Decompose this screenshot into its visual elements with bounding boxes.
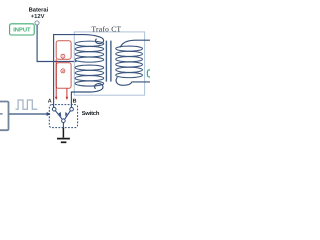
oscillator inner mark [0,113,3,115]
red highlight box pin 1 [56,41,71,60]
wire battery to transformer center tap [37,25,76,61]
arrowhead into switch [47,112,51,116]
oscillator block box [0,102,9,131]
svg-text:Switch: Switch [82,110,100,117]
node battery terminal circle [35,21,39,25]
switch block dashed box [49,105,77,128]
svg-text:INPUT: INPUT [13,27,31,33]
wire oscillator to switch [9,113,47,115]
primary coil loops [75,41,104,86]
transformer enclosure box [74,32,144,95]
red highlight box pin 2 [56,63,71,89]
emitter common node circle [62,119,66,123]
INPUT terminal box [10,24,35,35]
svg-text:+12V: +12V [31,13,45,20]
svg-text:A: A [48,99,52,105]
wire primary bottom to switch B [71,84,103,108]
wire secondary top to output [120,40,150,47]
square wave symbol [16,100,38,109]
red wire pin1 to A [55,59,57,97]
wire emitter to ground [62,123,64,128]
transformer core lines [105,41,107,82]
red wire pin2 to B [66,88,68,97]
ground symbol [62,128,64,138]
svg-text:Trafo CT: Trafo CT [92,24,122,33]
red pin number 2 [61,69,65,73]
wire secondary bottom to output [116,77,150,85]
red pin number 1 [61,54,65,58]
svg-text:Baterai: Baterai [29,6,49,13]
OUTPUT terminal box [147,70,159,77]
transistor B arrow [65,111,71,119]
transistor A collector circle [52,107,56,111]
svg-text:B: B [73,99,77,105]
transistor A arrow [55,111,62,119]
secondary coil loops [116,46,143,78]
transistor B collector circle [70,107,74,111]
wire primary top to switch A [54,35,104,108]
